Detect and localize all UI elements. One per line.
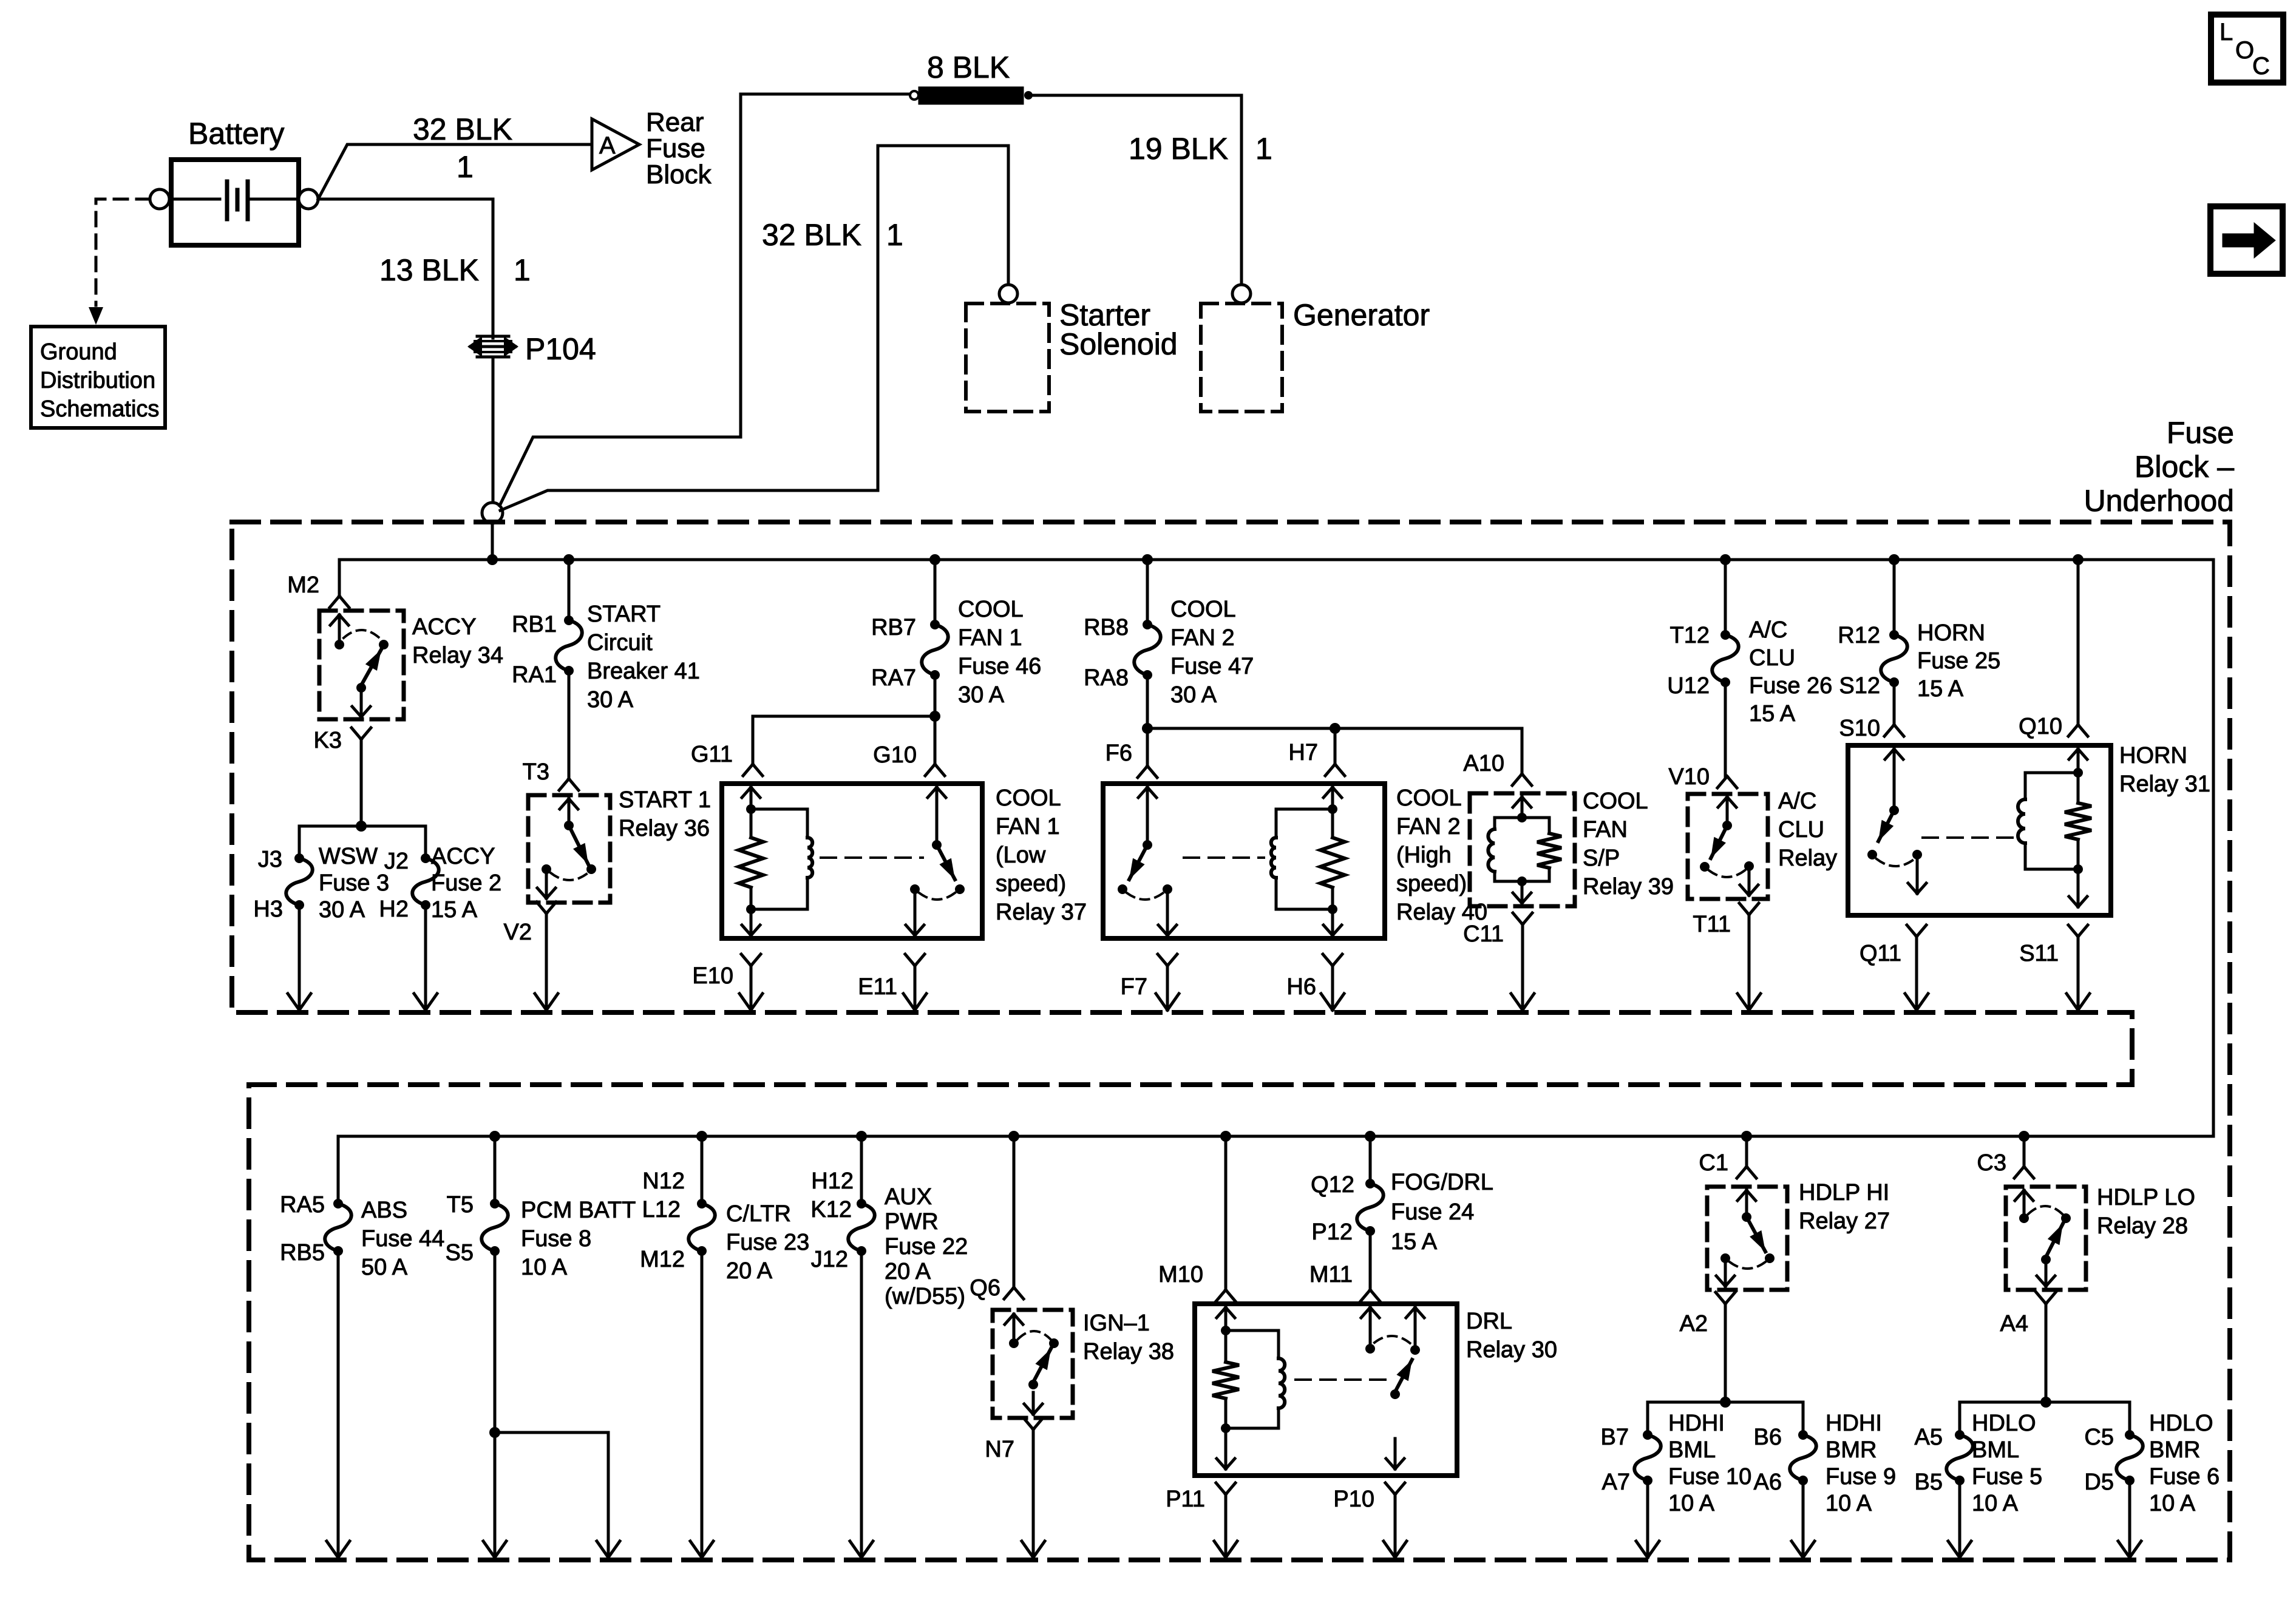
svg-text:J2: J2 bbox=[384, 849, 409, 874]
svg-text:K3: K3 bbox=[314, 728, 342, 753]
svg-text:15 A: 15 A bbox=[1391, 1229, 1438, 1255]
label 32 BLK 1 bbox=[413, 112, 512, 184]
horn relay 31 box bbox=[1848, 745, 2111, 915]
wire V2 down bbox=[535, 914, 558, 1010]
label fuse 24 bbox=[1391, 1170, 1493, 1255]
wire bus to T5 bbox=[494, 1136, 497, 1204]
terminal M2 bbox=[287, 572, 349, 608]
svg-text:H6: H6 bbox=[1286, 974, 1316, 1000]
svg-text:S/P: S/P bbox=[1583, 846, 1620, 871]
svg-text:Battery: Battery bbox=[188, 117, 284, 151]
label hdlp hi relay 27 bbox=[1799, 1180, 1890, 1234]
label 19 BLK 1 bbox=[1129, 132, 1272, 166]
svg-text:HDHI: HDHI bbox=[1668, 1411, 1725, 1436]
svg-text:A: A bbox=[599, 132, 616, 159]
label fuse 3 bbox=[319, 844, 389, 923]
svg-text:10 A: 10 A bbox=[1668, 1491, 1715, 1516]
wire J12 down bbox=[850, 1251, 873, 1558]
wire A2 to fuses bbox=[1648, 1304, 1803, 1435]
wire H6 down bbox=[1321, 966, 1344, 1010]
svg-text:COOL: COOL bbox=[958, 597, 1024, 622]
bus2 junction x2877 bbox=[1741, 1131, 1752, 1142]
svg-text:N7: N7 bbox=[985, 1437, 1014, 1462]
svg-text:HDHI: HDHI bbox=[1826, 1411, 1882, 1436]
fuse 8 pcm batt (T5-S5) bbox=[446, 1192, 508, 1266]
terminal H7 bbox=[1288, 740, 1345, 776]
bus wire row 2 bbox=[338, 1136, 2213, 1204]
svg-text:L: L bbox=[2220, 19, 2233, 46]
bus1 junction x1540 bbox=[929, 554, 940, 565]
bus1 junction x3120 bbox=[1889, 554, 1900, 565]
svg-text:START: START bbox=[587, 602, 661, 627]
svg-text:BMR: BMR bbox=[2149, 1437, 2200, 1463]
wire P12 to M11 bbox=[1369, 1231, 1372, 1289]
label generator bbox=[1293, 298, 1430, 332]
svg-text:AUX: AUX bbox=[885, 1184, 932, 1210]
off-page connector A (rear fuse block) bbox=[592, 119, 639, 170]
svg-text:Solenoid: Solenoid bbox=[1059, 327, 1178, 361]
svg-text:T11: T11 bbox=[1693, 912, 1731, 937]
label rear fuse block bbox=[646, 107, 712, 189]
svg-text:ACCY: ACCY bbox=[412, 614, 477, 640]
bus1 junction x1890 bbox=[1142, 554, 1153, 565]
svg-text:G10: G10 bbox=[873, 742, 917, 768]
wire U12 to V10 bbox=[1724, 682, 1727, 778]
hdlp hi relay 27 box bbox=[1707, 1187, 1787, 1290]
label fuse 10 bbox=[1668, 1411, 1751, 1516]
wire B5 down bbox=[1948, 1480, 1971, 1558]
wire S12 to S10 bbox=[1893, 682, 1896, 724]
bus2 junction x3334 bbox=[2019, 1131, 2029, 1142]
relay 30 coil branch bbox=[1212, 1307, 1285, 1469]
wire N7 down bbox=[1022, 1429, 1045, 1558]
terminal M10 bbox=[1158, 1262, 1235, 1301]
relay 40 coil branch bbox=[1271, 787, 1345, 935]
svg-text:Relay 38: Relay 38 bbox=[1083, 1339, 1174, 1364]
svg-text:S10: S10 bbox=[1839, 716, 1880, 741]
svg-text:K12: K12 bbox=[810, 1197, 852, 1222]
ground wire (dashed) bbox=[96, 199, 150, 305]
wire bus to L12 bbox=[701, 1136, 704, 1204]
relay 39 coil bbox=[1488, 797, 1561, 903]
label relay 37 bbox=[996, 785, 1087, 925]
terminal A2 bbox=[1680, 1292, 1735, 1337]
svg-text:15 A: 15 A bbox=[1917, 676, 1964, 702]
terminal G10 bbox=[873, 742, 945, 776]
bus1 junction x937 bbox=[563, 554, 574, 565]
svg-text:10 A: 10 A bbox=[2149, 1491, 2196, 1516]
start relay 36 contacts bbox=[560, 799, 578, 830]
svg-text:10 A: 10 A bbox=[521, 1255, 568, 1280]
svg-text:13 BLK: 13 BLK bbox=[379, 253, 479, 287]
fuse 2 ACCY (J2-H2) bbox=[379, 849, 438, 922]
svg-text:S11: S11 bbox=[2019, 941, 2059, 966]
svg-text:Fuse 2: Fuse 2 bbox=[431, 870, 501, 896]
horn relay coupling (dashed) bbox=[1923, 836, 2014, 839]
svg-text:speed): speed) bbox=[996, 871, 1066, 897]
svg-text:H2: H2 bbox=[379, 897, 409, 922]
svg-text:F6: F6 bbox=[1106, 741, 1132, 766]
svg-text:B6: B6 bbox=[1754, 1425, 1782, 1450]
label horn relay 31 bbox=[2119, 743, 2210, 797]
connector P104 bbox=[467, 336, 518, 357]
ign-1 relay contacts bbox=[1005, 1314, 1059, 1348]
svg-text:WSW: WSW bbox=[319, 844, 378, 869]
wire RA8 to F6/H7/A10 bbox=[1142, 675, 1522, 773]
fuse 3 WSW (J3-H3) bbox=[253, 847, 312, 922]
battery label bbox=[188, 117, 284, 151]
svg-text:(High: (High bbox=[1396, 842, 1452, 868]
svg-text:E11: E11 bbox=[858, 974, 897, 1000]
bus2 junction x1419 bbox=[856, 1131, 867, 1142]
wire C11 down bbox=[1511, 924, 1534, 1010]
svg-text:B7: B7 bbox=[1601, 1425, 1629, 1450]
svg-text:Fuse 25: Fuse 25 bbox=[1917, 648, 2000, 674]
svg-text:D5: D5 bbox=[2084, 1470, 2114, 1495]
circuit breaker 41 (RB1-RA1) bbox=[512, 612, 582, 688]
battery cell symbol bbox=[171, 181, 299, 219]
svg-text:A/C: A/C bbox=[1749, 617, 1787, 643]
svg-text:1: 1 bbox=[514, 253, 531, 287]
label 13 BLK 1 bbox=[379, 253, 531, 287]
svg-text:RB8: RB8 bbox=[1084, 615, 1129, 640]
svg-text:DRL: DRL bbox=[1466, 1309, 1512, 1334]
svg-text:Relay 39: Relay 39 bbox=[1583, 874, 1674, 900]
wire H2 down bbox=[414, 905, 437, 1010]
svg-text:A2: A2 bbox=[1680, 1311, 1708, 1337]
svg-text:Relay 30: Relay 30 bbox=[1466, 1337, 1557, 1363]
svg-text:8 BLK: 8 BLK bbox=[927, 50, 1010, 84]
cool fan 1 relay 37 box bbox=[722, 784, 982, 938]
label P104 bbox=[525, 332, 596, 366]
label fuse 26 bbox=[1749, 617, 1832, 727]
fuse 46 cool fan 1 (RB7-RA7) bbox=[871, 615, 948, 691]
svg-text:Circuit: Circuit bbox=[587, 630, 653, 656]
svg-text:Fuse 22: Fuse 22 bbox=[885, 1234, 968, 1259]
fuse 22 aux pwr (K12-J12) bbox=[810, 1168, 874, 1272]
hdlp lo relay 28 box bbox=[2006, 1187, 2086, 1290]
svg-text:30 A: 30 A bbox=[587, 687, 634, 713]
drl relay 30 box bbox=[1195, 1304, 1457, 1476]
wire bus to RB7 bbox=[934, 560, 937, 625]
wire bus to Q10 bbox=[2077, 560, 2080, 724]
wire bus to K12 bbox=[860, 1136, 863, 1204]
svg-text:P12: P12 bbox=[1311, 1219, 1353, 1245]
bus2 junction x2257 bbox=[1365, 1131, 1376, 1142]
svg-text:C/LTR: C/LTR bbox=[726, 1201, 791, 1227]
svg-text:HDLP LO: HDLP LO bbox=[2097, 1185, 2195, 1210]
wire P11 down bbox=[1214, 1494, 1237, 1558]
svg-text:P11: P11 bbox=[1166, 1486, 1205, 1512]
cool fan 2 relay 40 box bbox=[1103, 784, 1385, 938]
fuse 9 hdhi bmr (B6-A6) bbox=[1754, 1425, 1816, 1495]
ign-1 relay 38 box bbox=[993, 1310, 1073, 1418]
svg-text:15 A: 15 A bbox=[431, 897, 478, 923]
relay 30 coupling (dashed) bbox=[1296, 1378, 1390, 1381]
wire 13 BLK bbox=[318, 199, 493, 503]
svg-text:ABS: ABS bbox=[361, 1198, 407, 1223]
terminal P10 bbox=[1333, 1483, 1405, 1512]
wire to 8 BLK feed bbox=[500, 94, 914, 506]
fuse 5 hdlo bml (A5-B5) bbox=[1915, 1425, 1973, 1495]
fusible link 8 BLK bbox=[910, 87, 1033, 104]
wire bus to M10 bbox=[1224, 1136, 1228, 1289]
svg-text:C3: C3 bbox=[1977, 1150, 2006, 1176]
label fuse 9 bbox=[1826, 1411, 1896, 1516]
label relay 40 bbox=[1396, 785, 1487, 925]
wire Q11 down bbox=[1905, 937, 1928, 1010]
accy relay 34 box bbox=[319, 611, 404, 719]
svg-text:Q11: Q11 bbox=[1860, 941, 1901, 966]
accy relay 34 arm bbox=[352, 649, 381, 717]
terminal T3 bbox=[523, 759, 579, 790]
battery bbox=[171, 160, 299, 245]
wire F7 down bbox=[1156, 966, 1179, 1010]
svg-text:Fuse 9: Fuse 9 bbox=[1826, 1464, 1896, 1490]
bus2 junction x815 bbox=[489, 1131, 500, 1142]
next-page arrow icon bbox=[2210, 206, 2283, 274]
svg-text:Q12: Q12 bbox=[1311, 1172, 1354, 1198]
generator terminal bbox=[1232, 285, 1251, 303]
svg-text:Block: Block bbox=[646, 160, 712, 189]
svg-text:A10: A10 bbox=[1463, 751, 1504, 776]
wire A6 down bbox=[1792, 1480, 1815, 1558]
svg-text:Distribution: Distribution bbox=[40, 368, 155, 393]
svg-text:speed): speed) bbox=[1396, 871, 1467, 897]
terminal S11 bbox=[2019, 925, 2088, 966]
wire bus to Q6 bbox=[1013, 1136, 1016, 1287]
svg-text:S5: S5 bbox=[446, 1240, 474, 1266]
wire S11 down bbox=[2067, 937, 2090, 1010]
label 32 BLK 1 (starter) bbox=[762, 218, 903, 252]
svg-text:L12: L12 bbox=[642, 1197, 681, 1222]
terminal C3 bbox=[1977, 1150, 2034, 1178]
svg-text:Generator: Generator bbox=[1293, 298, 1430, 332]
svg-text:G11: G11 bbox=[691, 742, 733, 767]
svg-text:Q10: Q10 bbox=[2019, 714, 2062, 739]
wire T11 down bbox=[1737, 915, 1761, 1010]
relay 40 coupling (dashed) bbox=[1184, 856, 1264, 859]
svg-text:Fuse 8: Fuse 8 bbox=[521, 1226, 591, 1252]
battery positive terminal bbox=[299, 189, 318, 209]
label fuse 44 bbox=[361, 1198, 444, 1280]
svg-text:10 A: 10 A bbox=[1972, 1491, 2019, 1516]
terminal Q10 bbox=[2019, 714, 2088, 739]
svg-text:(Low: (Low bbox=[996, 842, 1046, 868]
svg-text:Fuse 6: Fuse 6 bbox=[2149, 1464, 2220, 1490]
svg-text:Fuse 3: Fuse 3 bbox=[319, 870, 389, 896]
svg-text:M2: M2 bbox=[287, 572, 319, 598]
label drl relay 30 bbox=[1466, 1309, 1557, 1363]
svg-text:H3: H3 bbox=[253, 897, 283, 922]
svg-text:T3: T3 bbox=[523, 759, 549, 785]
svg-text:1: 1 bbox=[457, 150, 474, 184]
bus wire row 1 bbox=[339, 560, 2213, 1136]
svg-text:32 BLK: 32 BLK bbox=[413, 112, 512, 146]
terminal F6 bbox=[1106, 741, 1157, 778]
bus1 junction x2842 bbox=[1720, 554, 1731, 565]
svg-text:15 A: 15 A bbox=[1749, 701, 1796, 727]
wire E10 down bbox=[739, 966, 763, 1010]
wire bus to C3 bbox=[2023, 1136, 2026, 1166]
svg-text:HDLO: HDLO bbox=[1972, 1411, 2036, 1436]
wire 32 BLK to starter solenoid bbox=[500, 146, 1008, 510]
label a/c clu relay bbox=[1778, 788, 1837, 871]
wire bus to Q12 bbox=[1369, 1136, 1372, 1184]
wire bus to RB8 bbox=[1146, 560, 1149, 625]
label hdlp lo relay 28 bbox=[2097, 1185, 2195, 1239]
a/c clu relay box bbox=[1688, 794, 1768, 899]
svg-text:COOL: COOL bbox=[1583, 788, 1648, 814]
svg-text:Ground: Ground bbox=[40, 339, 117, 365]
svg-text:Relay 28: Relay 28 bbox=[2097, 1213, 2188, 1239]
svg-text:O: O bbox=[2235, 37, 2254, 64]
terminal V2 bbox=[504, 902, 556, 945]
fuse 23 c/ltr (L12-M12) bbox=[640, 1168, 715, 1272]
terminal M11 bbox=[1309, 1262, 1380, 1301]
relay 40 switch bbox=[1118, 787, 1177, 935]
svg-text:F7: F7 bbox=[1121, 974, 1147, 1000]
svg-text:V10: V10 bbox=[1668, 764, 1710, 790]
svg-text:Breaker 41: Breaker 41 bbox=[587, 659, 700, 684]
terminal T11 bbox=[1693, 903, 1759, 937]
svg-text:FAN 2: FAN 2 bbox=[1396, 814, 1461, 839]
wire bus to RB1 bbox=[568, 560, 571, 620]
starter solenoid terminal bbox=[999, 285, 1017, 303]
svg-text:COOL: COOL bbox=[996, 785, 1061, 811]
svg-text:BML: BML bbox=[1972, 1437, 2019, 1463]
svg-text:RA5: RA5 bbox=[280, 1192, 325, 1218]
fuse 24 fog/drl (Q12-P12) bbox=[1311, 1172, 1384, 1245]
svg-text:T12: T12 bbox=[1670, 623, 1710, 648]
wire A4 to fuses bbox=[1960, 1304, 2130, 1435]
svg-text:Fuse 44: Fuse 44 bbox=[361, 1226, 444, 1252]
svg-text:ACCY: ACCY bbox=[431, 844, 495, 869]
svg-text:RA8: RA8 bbox=[1084, 665, 1129, 691]
svg-text:FAN: FAN bbox=[1583, 817, 1628, 842]
wire bus to C1 bbox=[1745, 1136, 1748, 1166]
fuse 25 horn (R12-S12) bbox=[1838, 623, 1907, 699]
fuse 26 a/c clu (T12-U12) bbox=[1667, 623, 1738, 699]
fuse block - underhood outline bbox=[232, 522, 2230, 1560]
svg-text:Underhood: Underhood bbox=[2084, 484, 2234, 518]
svg-text:C11: C11 bbox=[1463, 921, 1504, 947]
label fuse 8 bbox=[521, 1198, 636, 1280]
label relay 39 bbox=[1583, 788, 1674, 900]
svg-text:R12: R12 bbox=[1838, 623, 1880, 648]
svg-text:U12: U12 bbox=[1667, 673, 1710, 699]
label fuse 47 bbox=[1170, 597, 1254, 708]
svg-text:Relay 34: Relay 34 bbox=[412, 643, 503, 668]
svg-text:30 A: 30 A bbox=[319, 897, 365, 923]
terminal N7 bbox=[985, 1418, 1043, 1462]
label starter solenoid bbox=[1059, 298, 1178, 361]
svg-text:CLU: CLU bbox=[1749, 645, 1795, 671]
svg-text:(w/D55): (w/D55) bbox=[885, 1284, 965, 1309]
wire to generator bbox=[1033, 95, 1241, 284]
svg-text:1: 1 bbox=[1255, 132, 1272, 166]
svg-text:Q6: Q6 bbox=[970, 1275, 1000, 1301]
svg-text:IGN–1: IGN–1 bbox=[1083, 1310, 1150, 1336]
horn relay switch bbox=[1867, 749, 1926, 893]
wire A7 down bbox=[1636, 1480, 1659, 1558]
terminal K3 bbox=[314, 728, 371, 753]
generator box bbox=[1201, 303, 1282, 412]
svg-text:Relay 37: Relay 37 bbox=[996, 900, 1087, 925]
svg-text:H7: H7 bbox=[1288, 740, 1318, 765]
svg-text:RB5: RB5 bbox=[280, 1240, 325, 1266]
wire bus to T12 bbox=[1724, 560, 1727, 635]
cool fan s/p relay 39 box bbox=[1470, 793, 1575, 906]
svg-text:RB7: RB7 bbox=[871, 615, 916, 640]
wire S5 down (split) bbox=[483, 1251, 620, 1558]
svg-text:E10: E10 bbox=[692, 963, 733, 989]
bus2 junction x1156 bbox=[696, 1131, 707, 1142]
svg-text:COOL: COOL bbox=[1396, 785, 1462, 811]
svg-text:C: C bbox=[2252, 53, 2270, 80]
terminal P11 bbox=[1166, 1483, 1235, 1512]
svg-text:CLU: CLU bbox=[1778, 817, 1824, 842]
horn relay coil branch bbox=[2018, 749, 2091, 907]
svg-text:RA1: RA1 bbox=[512, 662, 557, 688]
svg-text:30 A: 30 A bbox=[958, 682, 1005, 708]
label fuse block - underhood bbox=[2084, 416, 2235, 518]
svg-text:P104: P104 bbox=[525, 332, 596, 366]
svg-text:20 A: 20 A bbox=[885, 1259, 931, 1284]
svg-text:10 A: 10 A bbox=[1826, 1491, 1872, 1516]
accy relay 34 contacts bbox=[330, 615, 389, 649]
svg-text:Fuse 26: Fuse 26 bbox=[1749, 673, 1832, 699]
terminal Q6 bbox=[970, 1275, 1024, 1301]
svg-text:Fuse 46: Fuse 46 bbox=[958, 654, 1041, 679]
wire D5 down bbox=[2118, 1480, 2141, 1558]
svg-text:Fuse 5: Fuse 5 bbox=[1972, 1464, 2042, 1490]
terminal V10 bbox=[1668, 764, 1737, 790]
svg-text:A5: A5 bbox=[1915, 1425, 1943, 1450]
svg-text:A/C: A/C bbox=[1778, 788, 1816, 814]
terminal C1 bbox=[1699, 1150, 1756, 1178]
svg-text:Fuse 24: Fuse 24 bbox=[1391, 1199, 1474, 1225]
bus1 junction x811 bbox=[487, 554, 498, 565]
fuse 6 hdlo bmr (C5-D5) bbox=[2084, 1425, 2142, 1495]
splice junction S100 bbox=[482, 503, 503, 557]
svg-text:1: 1 bbox=[886, 218, 903, 252]
hdlp lo relay contacts bbox=[2015, 1190, 2071, 1223]
wire RA1 to T3 bbox=[568, 671, 571, 778]
a/c clu relay contacts bbox=[1700, 797, 1758, 895]
svg-text:H12: H12 bbox=[811, 1168, 854, 1194]
terminal G11 bbox=[691, 742, 763, 776]
svg-text:V2: V2 bbox=[504, 920, 532, 945]
svg-text:BMR: BMR bbox=[1826, 1437, 1877, 1463]
hdlp lo relay arm bbox=[2037, 1224, 2063, 1286]
relay 37 switch bbox=[906, 787, 965, 935]
svg-text:M12: M12 bbox=[640, 1247, 685, 1272]
svg-text:50 A: 50 A bbox=[361, 1255, 408, 1280]
svg-text:Schematics: Schematics bbox=[40, 396, 159, 422]
wire P10 down bbox=[1384, 1494, 1407, 1558]
svg-text:A6: A6 bbox=[1754, 1470, 1782, 1495]
svg-text:N12: N12 bbox=[642, 1168, 685, 1194]
wire H3 down bbox=[288, 905, 311, 1010]
relay 37 coil branch bbox=[739, 787, 812, 935]
svg-text:START 1: START 1 bbox=[619, 787, 711, 813]
wire RB5 down bbox=[327, 1251, 350, 1558]
terminal E11 bbox=[858, 954, 925, 1000]
svg-text:Rear: Rear bbox=[646, 107, 704, 137]
label fuse 6 bbox=[2149, 1411, 2220, 1516]
bus2 junction x2019 bbox=[1220, 1131, 1231, 1142]
